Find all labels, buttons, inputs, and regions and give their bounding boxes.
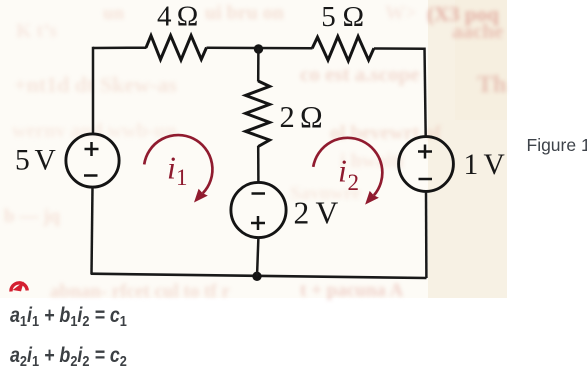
svg-text:2Ω: 2Ω <box>280 100 323 134</box>
node: bottom junction dot <box>252 272 261 281</box>
equation 2 <box>10 344 127 370</box>
V2 minus sign <box>252 192 266 195</box>
V3 plus sign <box>418 145 432 159</box>
wire: middle vertical upper <box>257 48 260 82</box>
svg-text:i: i <box>338 153 347 189</box>
resistor 4Ω zigzag <box>146 36 207 61</box>
voltage source V1 5V circle <box>66 134 119 187</box>
wire: right vertical lower <box>425 191 428 278</box>
voltage source V3 1V circle <box>399 137 454 192</box>
node: top junction dot <box>254 44 263 53</box>
wire: right vertical upper <box>425 48 426 137</box>
mesh current arrow i2 <box>313 138 382 205</box>
label i1 <box>167 150 188 191</box>
V1 minus sign <box>84 174 98 177</box>
svg-text:1: 1 <box>176 165 188 190</box>
wire: top-right horizontal segment <box>374 47 425 50</box>
wire: middle vertical lower <box>257 238 258 277</box>
mesh current arrow i1 <box>144 135 212 202</box>
V2 plus sign <box>251 216 265 230</box>
V3 minus sign <box>419 178 433 181</box>
svg-text:5V: 5V <box>15 145 56 177</box>
wire: left vertical upper <box>92 47 95 134</box>
resistor 2Ω vertical zigzag <box>246 81 270 147</box>
svg-text:1V: 1V <box>464 149 505 181</box>
equation 1 <box>10 304 127 330</box>
wire: bottom horizontal <box>91 274 427 278</box>
voltage source V2 2V circle <box>231 182 286 237</box>
bleed-through smudge text <box>103 3 124 25</box>
V1 plus sign <box>85 142 99 156</box>
wire: left vertical lower <box>92 187 93 274</box>
svg-text:4Ω: 4Ω <box>157 1 198 33</box>
svg-text:2V: 2V <box>294 196 339 231</box>
caption Figure 1 <box>527 135 587 156</box>
scanned page background tint <box>0 0 507 298</box>
red gauge icon <box>11 283 27 292</box>
wire: top-middle segment <box>207 47 313 50</box>
wire: top-left horizontal segment <box>93 46 147 49</box>
wire: middle vertical mid <box>257 146 260 183</box>
svg-text:i: i <box>167 150 176 186</box>
label i2 <box>338 153 359 196</box>
svg-text:2: 2 <box>348 170 360 195</box>
svg-text:5Ω: 5Ω <box>321 1 364 33</box>
resistor 5Ω zigzag <box>312 37 374 61</box>
